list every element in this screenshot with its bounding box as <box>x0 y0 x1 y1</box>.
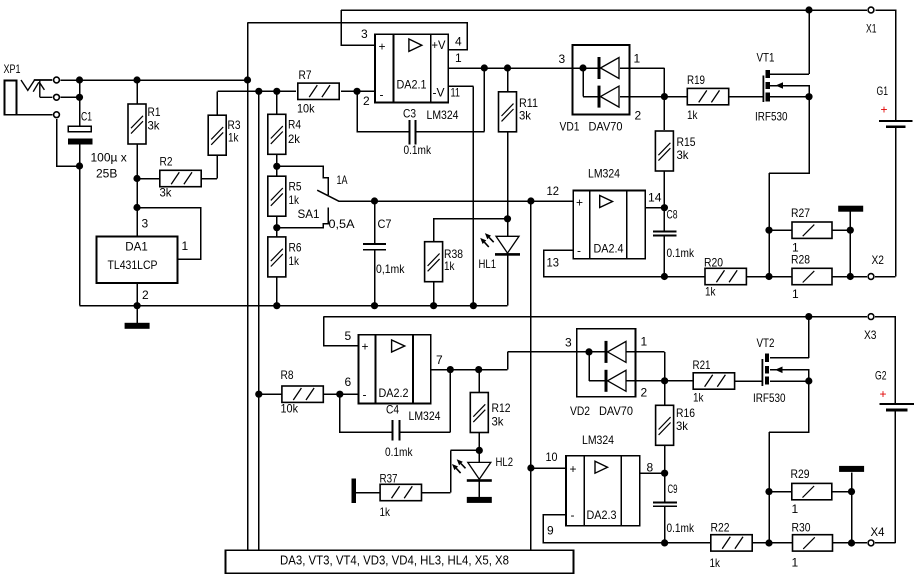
svg-text:DA2.4: DA2.4 <box>594 242 624 256</box>
op-amp DA2.2 <box>359 335 431 404</box>
svg-text:HL1: HL1 <box>479 257 497 271</box>
wire: pin2 node down to C3 left plate <box>357 91 409 131</box>
wire: R1 top stub <box>136 80 138 104</box>
resistor R15 <box>655 131 673 171</box>
svg-text:X4: X4 <box>871 525 885 539</box>
wire: R11 bottom to HL1 anode <box>507 132 509 236</box>
svg-text:1: 1 <box>455 51 462 65</box>
svg-text:1: 1 <box>634 52 641 66</box>
svg-text:1: 1 <box>792 287 799 301</box>
svg-text:3: 3 <box>361 27 368 41</box>
wire: X2 to G1 negative column <box>875 128 895 277</box>
node: DA1 pin2 ground <box>134 302 141 309</box>
IC DA1 TL431 box <box>97 237 178 284</box>
resistor R38 <box>425 242 443 282</box>
wire: R12 bottom to HL2 node <box>478 432 480 462</box>
svg-text:1: 1 <box>182 239 189 253</box>
terminal bar left of R37 <box>352 479 357 503</box>
transistor VT1 <box>763 70 783 102</box>
wire: R29 right to lower ground stem <box>832 491 851 493</box>
svg-text:+V: +V <box>432 38 446 52</box>
wire: R3 stub <box>216 91 218 116</box>
terminal XP1 sleeve <box>54 112 60 118</box>
terminal X4 <box>868 540 874 546</box>
node: tip rail / R1 <box>133 76 140 83</box>
wire: R7 to DA2.1 pin2 <box>341 90 375 92</box>
svg-text:LM324: LM324 <box>409 409 441 423</box>
wire: DA1 pin1 feedback loop <box>137 208 201 260</box>
svg-text:R28: R28 <box>791 253 810 267</box>
wire: VD1 diode2 out to R19 <box>620 96 688 98</box>
wire: R4 bottom to R5 top through 1A tap <box>276 154 278 177</box>
node: pin7 / R12 <box>475 366 482 373</box>
wire: SA1 common row y=201 to DA2.4 pin12 <box>338 200 573 202</box>
wire: R16 bottom to C9 top <box>664 445 666 502</box>
svg-text:R27: R27 <box>791 206 810 220</box>
chassis bar lower (R29 ground) <box>839 466 864 472</box>
wire: C3 right plate to output column <box>415 68 484 132</box>
node: bus3 / pin10 <box>527 464 534 471</box>
svg-text:3k: 3k <box>160 186 173 200</box>
node: output / C3 <box>481 64 488 71</box>
wire: HL1 cathode to ground rail corner <box>507 255 509 305</box>
wire: VD1 diode1 out right and down <box>620 68 664 130</box>
svg-text:1k: 1k <box>444 259 455 273</box>
wire: VT2 drain to X3 line <box>770 317 809 358</box>
svg-text:+: + <box>881 103 888 117</box>
node: R15 / C8 / pin14 <box>661 204 668 211</box>
wire: XP1 sleeve down and right to C1 bottom node <box>16 115 79 166</box>
svg-text:+: + <box>379 40 386 54</box>
resistor R4 <box>268 114 286 154</box>
svg-text:R37: R37 <box>380 472 398 486</box>
svg-text:DA1: DA1 <box>125 240 148 254</box>
resistor R12 <box>470 393 488 433</box>
svg-text:1k: 1k <box>380 505 391 519</box>
wire: R30 right to X4 <box>833 542 867 544</box>
connector XP1 jack body <box>5 81 17 115</box>
wire: DA2.4 pin13 loop to R20 <box>544 250 706 277</box>
svg-text:3: 3 <box>559 52 566 66</box>
svg-text:8: 8 <box>647 461 654 475</box>
svg-text:+: + <box>880 387 887 401</box>
svg-text:-: - <box>577 244 581 258</box>
svg-text:+: + <box>362 340 369 354</box>
diode block VD1 body <box>573 45 630 115</box>
resistor R29 <box>792 483 832 499</box>
resistor R1 <box>128 104 146 144</box>
resistor R21 <box>693 373 734 389</box>
node: pin11 ground <box>470 302 477 309</box>
svg-text:10: 10 <box>546 450 558 464</box>
svg-text:-: - <box>380 88 384 102</box>
svg-text:1: 1 <box>641 335 648 349</box>
svg-text:0.1mk: 0.1mk <box>667 246 695 260</box>
resistor R19 <box>687 88 728 104</box>
svg-text:SA1: SA1 <box>298 207 320 221</box>
node: R5/R6 0,5A tap <box>273 224 280 231</box>
LED HL1 <box>480 233 520 256</box>
wire: VD2 internal junction down <box>589 352 605 381</box>
svg-text:12: 12 <box>547 184 560 198</box>
svg-text:VT2: VT2 <box>757 336 775 350</box>
svg-text:3: 3 <box>565 336 572 350</box>
diode VD1.2 <box>598 86 620 108</box>
wire: C8 bottom to feedback row <box>663 237 665 277</box>
svg-text:LM324: LM324 <box>588 167 620 181</box>
node: R28 right / stem <box>847 273 854 280</box>
wire: R38 top to HL1 node <box>434 219 508 242</box>
node: R38 ground <box>430 302 437 309</box>
svg-text:0.1mk: 0.1mk <box>404 143 432 157</box>
wire: R37 left terminal to box <box>356 492 380 494</box>
node: C9 / pin9 row <box>661 539 668 546</box>
svg-text:LM324: LM324 <box>582 433 614 447</box>
battery G2 <box>880 404 914 411</box>
svg-text:R21: R21 <box>693 358 711 372</box>
resistor R16 <box>656 405 674 445</box>
wire: R6 bottom to ground rail <box>276 277 278 306</box>
resistor R30 <box>793 535 833 551</box>
wire: DA2.2 pin7 output row <box>431 352 605 370</box>
node: VD1 input split <box>579 64 586 71</box>
svg-text:0.1mk: 0.1mk <box>667 521 695 535</box>
svg-text:100µ x: 100µ x <box>91 151 127 165</box>
svg-text:C1: C1 <box>81 110 92 124</box>
LED HL2 <box>452 459 492 482</box>
wire: drop from sense line to DA2.1 pin3 <box>341 10 375 45</box>
svg-text:VT1: VT1 <box>757 51 775 65</box>
wire: VD2 diode2 out to R21 <box>626 380 693 382</box>
wire: R2 row <box>137 155 217 179</box>
node: pin7 / C4 <box>447 366 454 373</box>
wire: R37 right jog up to HL2 node <box>422 450 480 492</box>
node: R27 left <box>765 227 772 234</box>
svg-text:14: 14 <box>648 191 662 205</box>
terminal XP1 tip <box>54 77 60 83</box>
svg-text:3k: 3k <box>676 419 689 433</box>
diode VD1.1 <box>598 57 620 79</box>
wire: DA2.4 pin14 output <box>645 207 664 209</box>
svg-text:R5: R5 <box>289 180 302 194</box>
node: R30 right / stem <box>848 539 855 546</box>
wire: DA1 pin2 to ground rail <box>136 283 138 306</box>
svg-text:VD2: VD2 <box>570 404 590 418</box>
svg-text:-: - <box>571 508 575 522</box>
node: R29 left <box>765 488 772 495</box>
node: SA1 common / bus3 <box>527 197 534 204</box>
wire: R38 bottom to ground rail <box>433 282 435 306</box>
wire: DA2.1 output pin1 row to VD1 <box>448 67 597 69</box>
wire: C9 bottom to pin9 row <box>664 507 666 543</box>
node: R27 right / stem <box>847 227 854 234</box>
terminal XP1 ring <box>54 94 60 100</box>
node: R7 / pin2 / C3 <box>353 88 360 95</box>
capacitor C3 <box>409 120 415 145</box>
node: R1 / R2 <box>133 175 140 182</box>
svg-text:1k: 1k <box>289 254 300 268</box>
resistor R27 <box>792 222 832 238</box>
svg-text:R7: R7 <box>299 68 312 82</box>
svg-text:R19: R19 <box>687 73 705 87</box>
node: pin2 row / bus2 <box>255 88 262 95</box>
wire: bus2 vertical x=258.8 <box>258 91 260 550</box>
chassis bar DA1 ground <box>125 323 150 329</box>
node: output / R11 <box>504 64 511 71</box>
svg-text:2: 2 <box>641 386 648 400</box>
wire: R27 row left <box>769 229 792 231</box>
diode VD2.1 <box>605 341 627 363</box>
svg-text:R6: R6 <box>289 241 302 255</box>
wire: DA1 ground stem <box>136 306 138 323</box>
svg-text:3k: 3k <box>519 109 532 123</box>
svg-text:1k: 1k <box>228 131 239 145</box>
node: R20/R28 left <box>765 273 772 280</box>
wire: R28 right to X2 <box>832 276 867 278</box>
svg-text:+: + <box>570 462 577 476</box>
svg-text:DA2.2: DA2.2 <box>379 386 409 400</box>
op-amp DA2.4 <box>573 190 645 258</box>
svg-text:X3: X3 <box>864 328 877 342</box>
capacitor C7 <box>363 244 386 250</box>
wire: battery sense line y=10 to X1 <box>341 10 896 120</box>
svg-text:2: 2 <box>363 94 370 108</box>
node: C8 / pin13 row <box>661 273 668 280</box>
svg-text:DA2.3: DA2.3 <box>587 508 617 522</box>
svg-text:HL2: HL2 <box>496 455 514 469</box>
node: R16 / C9 / pin8 <box>661 470 668 477</box>
svg-text:6: 6 <box>345 375 352 389</box>
svg-text:3k: 3k <box>492 415 505 429</box>
wire: C4 integrator loop <box>340 370 451 433</box>
wire: HL2 cathode to ground bar <box>478 482 480 498</box>
node: R4/R5 1A tap <box>273 163 280 170</box>
svg-text:7: 7 <box>436 353 443 367</box>
svg-text:G2: G2 <box>875 369 887 383</box>
capacitor C8 <box>653 232 677 236</box>
wire: R20 right to R28 left <box>746 276 792 278</box>
wire: R16 column VD2 node to pin8 node <box>664 381 666 406</box>
wire: X3 sense line y=316.6 <box>324 317 896 404</box>
battery G1 <box>879 121 912 128</box>
node: VD2 out / R21 / R16 <box>661 377 668 384</box>
wire: output node down to R11 <box>507 68 509 92</box>
resistor R37 <box>380 484 421 500</box>
wire: VD2 diode1 out right and down <box>626 352 665 381</box>
svg-text:13: 13 <box>547 256 560 270</box>
svg-text:R4: R4 <box>288 118 301 132</box>
node: R22/R30 junction <box>765 539 772 546</box>
svg-text:TL431LCP: TL431LCP <box>108 258 158 272</box>
wire: +V feed line y=22.5 to DA2.1 pin4 <box>248 23 468 50</box>
svg-text:R30: R30 <box>792 521 811 535</box>
node: VT2 source <box>805 377 812 384</box>
node: C7 ground <box>371 302 378 309</box>
chassis bar upper (R27 ground) <box>838 206 863 212</box>
wire: VD1 internal junction down <box>583 68 598 97</box>
resistor R28 <box>792 268 832 284</box>
wire: X4 to G2 negative column <box>875 411 895 543</box>
svg-text:R22: R22 <box>711 521 730 535</box>
wire: pin6 row from bus2 through R8 <box>259 393 359 395</box>
resistor R3 <box>208 115 226 155</box>
svg-text:R1: R1 <box>148 105 161 119</box>
svg-text:C8: C8 <box>667 208 678 222</box>
terminal X2 <box>868 274 874 280</box>
node: VD1 out / R19 / R15 <box>661 93 668 100</box>
wire: bus1 vertical (+ rail) x=247.5 <box>247 23 249 551</box>
resistor R8 <box>282 386 323 402</box>
wire: R15 bottom to C8 top with pin14 tap <box>663 172 665 231</box>
capacitor C4 <box>393 420 400 441</box>
wire: XP1 ring contact to C1 column <box>61 96 80 98</box>
op-amp DA2.3 <box>566 456 640 526</box>
node: sense line / VT1 drain <box>805 6 812 13</box>
svg-text:0,1mk: 0,1mk <box>376 262 405 276</box>
svg-text:1k: 1k <box>289 193 300 207</box>
svg-text:4: 4 <box>455 35 462 49</box>
svg-text:IRF530: IRF530 <box>753 391 786 405</box>
node: ring / C1 <box>76 94 83 101</box>
node: R8 / pin6 / C4 <box>336 391 343 398</box>
svg-text:DA2.1: DA2.1 <box>397 78 427 92</box>
svg-text:G1: G1 <box>877 84 889 98</box>
svg-text:R8: R8 <box>281 368 294 382</box>
svg-text:1k: 1k <box>705 285 716 299</box>
wire: DA2.3 pin10 from bus3 <box>531 467 566 469</box>
svg-text:0.1mk: 0.1mk <box>385 445 413 459</box>
resistor R22 <box>711 535 752 551</box>
svg-text:IRF530: IRF530 <box>755 110 788 124</box>
node: R6 ground <box>273 302 280 309</box>
svg-text:C4: C4 <box>386 403 399 417</box>
svg-text:1k: 1k <box>693 391 704 405</box>
svg-text:-V: -V <box>433 86 445 100</box>
wire: C1 column from tip rail down to top plate <box>79 80 81 126</box>
resistor R6 <box>268 237 286 277</box>
svg-text:R15: R15 <box>677 135 696 149</box>
resistor R5 <box>268 176 286 216</box>
svg-text:DA3, VT3, VT4, VD3, VD4, HL3,: DA3, VT3, VT4, VD3, VD4, HL3, HL4, X5, X… <box>280 554 509 568</box>
wire: R29 row left <box>769 491 792 493</box>
svg-text:X2: X2 <box>872 253 885 267</box>
wire: VT1 source jog down to R27/R20 column <box>769 97 809 277</box>
svg-text:R12: R12 <box>492 401 511 415</box>
chassis bar below HL2 <box>467 497 492 503</box>
wire: VT1 body to source node <box>770 86 809 97</box>
node: tip rail / C1 <box>76 76 83 83</box>
node: X3 line / VT2 drain <box>805 313 812 320</box>
node: R12 / HL2 / R37 <box>476 447 483 454</box>
svg-text:VD1: VD1 <box>560 120 580 134</box>
wire: XP1 tip rail to bus1 (net +IN) <box>61 79 248 81</box>
terminal X1 <box>868 7 874 13</box>
wire: SA1 contact 0,5A <box>277 208 329 228</box>
diode block VD2 body <box>577 329 636 397</box>
connector XP1 spring contact <box>21 80 52 97</box>
node: SA1 common / C7 <box>371 197 378 204</box>
svg-text:C3: C3 <box>403 107 416 121</box>
svg-text:1A: 1A <box>337 173 348 187</box>
svg-text:X1: X1 <box>866 22 877 36</box>
svg-text:3k: 3k <box>677 148 690 162</box>
capacitor C1 bottom plate <box>68 138 92 144</box>
svg-text:-: - <box>363 388 367 402</box>
op-amp DA2.1 <box>375 34 448 102</box>
block DA3 second channel box <box>226 550 574 573</box>
wire: R5 bottom to R6 top through 0,5A tap <box>276 216 278 237</box>
svg-text:DAV70: DAV70 <box>589 120 623 134</box>
wire: DA2.1 pin11 to ground rail <box>448 86 473 305</box>
node: pin2 row / R4 <box>273 88 280 95</box>
resistor R7 <box>298 83 339 99</box>
wire: VT1 source row <box>770 96 809 98</box>
svg-text:1: 1 <box>792 556 799 570</box>
node: tip rail / bus1 <box>244 76 251 83</box>
wire: VT2 body to source node <box>770 370 809 381</box>
svg-text:LM324: LM324 <box>427 108 459 122</box>
node: bus2 / R8 <box>255 391 262 398</box>
resistor R11 <box>499 92 517 132</box>
diode VD2.2 <box>605 370 627 392</box>
capacitor C9 <box>653 502 677 506</box>
svg-text:2k: 2k <box>288 132 301 146</box>
svg-text:25В: 25В <box>96 167 117 181</box>
svg-text:1k: 1k <box>687 108 698 122</box>
wire: R12 top stub <box>478 370 480 393</box>
svg-text:XP1: XP1 <box>4 62 21 76</box>
wire: DA2.3 pin8 output <box>640 472 665 474</box>
svg-text:DAV70: DAV70 <box>599 404 633 418</box>
capacitor C1 top plate <box>68 126 91 132</box>
svg-text:+: + <box>576 196 583 210</box>
svg-text:R2: R2 <box>160 155 173 169</box>
wire: R4 stub <box>276 91 278 115</box>
wire: R21 to VT2 gate <box>735 380 762 382</box>
svg-text:1k: 1k <box>710 556 721 570</box>
wire: SA1 contact 1A <box>277 166 329 195</box>
node: R29 right / stem <box>848 488 855 495</box>
svg-text:R29: R29 <box>791 467 810 481</box>
svg-text:10k: 10k <box>281 402 299 416</box>
wire: R27 right to ground stem <box>832 229 850 231</box>
wire: VT2 source jog down to R29/R30 column <box>769 381 809 543</box>
svg-text:1: 1 <box>792 502 799 516</box>
wire: DA2.3 pin9 loop to R22 <box>543 515 710 543</box>
svg-text:C9: C9 <box>668 482 678 496</box>
svg-text:11: 11 <box>451 86 461 100</box>
node: VD2 input split <box>585 348 592 355</box>
terminal X3 <box>868 314 874 320</box>
wire: ground stem column x=850.3 <box>849 212 851 277</box>
resistor R2 <box>160 170 201 186</box>
wire: VT1 drain to sense line <box>770 10 809 74</box>
svg-text:2: 2 <box>142 288 149 302</box>
resistor R20 <box>705 268 746 284</box>
wire: R19 to VT1 gate <box>729 96 763 98</box>
wire: R1 bottom to DA1 pin3 <box>136 144 138 237</box>
wire: bus3 vertical x=530.9 <box>530 201 532 551</box>
svg-text:3k: 3k <box>148 119 161 133</box>
node: VT1 source <box>805 93 812 100</box>
svg-text:0,5A: 0,5A <box>329 217 355 231</box>
svg-text:10k: 10k <box>297 102 315 116</box>
wire: VT2 source row <box>770 380 809 382</box>
svg-text:R20: R20 <box>704 256 723 270</box>
node: R11 / R38 / HL1 <box>504 215 511 222</box>
wire: C7 column <box>374 201 376 306</box>
wire: drop to DA2.2 pin5 <box>324 317 359 346</box>
